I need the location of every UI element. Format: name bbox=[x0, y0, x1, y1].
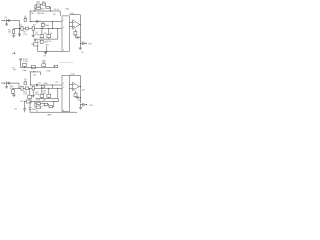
wire node H down bbox=[18, 83, 20, 88]
svg-text:4k7: 4k7 bbox=[82, 90, 85, 92]
svg-text:C9: C9 bbox=[38, 83, 40, 85]
node Q junction bbox=[52, 21, 53, 22]
resistor R8b 220k bbox=[41, 82, 58, 88]
ground below jack J1 bbox=[5, 22, 8, 25]
jumper marks left bbox=[12, 67, 15, 70]
ground on bias rail bbox=[44, 51, 48, 57]
ground below R13 bbox=[13, 95, 16, 97]
input jack J1 bbox=[5, 17, 8, 23]
node U junction bbox=[79, 103, 82, 106]
ground below output bottom bbox=[79, 105, 82, 110]
wire supply rail middle faint bbox=[59, 62, 74, 64]
capacitor Cin bottom bars bbox=[8, 82, 11, 85]
wire node J down bbox=[48, 88, 50, 94]
svg-text:2.2k: 2.2k bbox=[23, 94, 27, 96]
node M junction bbox=[33, 100, 36, 103]
label C12 value bbox=[35, 92, 39, 96]
wire lower rail bottom bbox=[36, 97, 58, 99]
ground below C3 bbox=[32, 36, 35, 38]
node J junction bbox=[48, 88, 49, 89]
capacitor C3 to ground bbox=[32, 26, 34, 35]
wire output vertical b bbox=[80, 76, 82, 104]
resistor R14 series bbox=[25, 87, 28, 90]
svg-text:22k: 22k bbox=[42, 62, 45, 64]
svg-text:470p: 470p bbox=[35, 94, 39, 96]
wire to IC pin bbox=[30, 21, 62, 23]
node K junction bbox=[57, 88, 58, 89]
input jack J2 bbox=[6, 81, 8, 85]
capacitor C14 bbox=[76, 96, 81, 98]
wire non-inverting input b bbox=[69, 88, 72, 90]
label small left bbox=[12, 52, 15, 54]
node L junction bbox=[79, 96, 82, 99]
wire bias rail top bbox=[38, 50, 62, 52]
capacitor C13 bbox=[40, 94, 44, 98]
label R14 value bbox=[23, 91, 27, 95]
wire Q down to bus bbox=[51, 22, 53, 29]
ground below jack J2 bbox=[5, 85, 8, 88]
wire middle link bottom bbox=[41, 104, 45, 107]
node Q2 junction bbox=[52, 28, 53, 29]
wire bottom rail bbox=[30, 111, 77, 113]
node N junction bbox=[52, 100, 55, 103]
svg-text:C15: C15 bbox=[77, 100, 80, 102]
wire node I down bbox=[41, 88, 43, 94]
svg-text:C8: C8 bbox=[74, 35, 76, 37]
svg-text:4: 4 bbox=[63, 50, 64, 52]
ground below R1 bbox=[12, 35, 15, 37]
wire feedback bus bottom bbox=[25, 100, 59, 102]
resistor R17 feedback bbox=[36, 103, 40, 105]
wire below op-amp bbox=[74, 29, 76, 31]
svg-text:GND: GND bbox=[47, 115, 52, 117]
svg-text:470p: 470p bbox=[35, 34, 39, 36]
resistor R15 bbox=[47, 94, 51, 98]
svg-text:10u: 10u bbox=[44, 42, 47, 44]
wire riser to bus bbox=[57, 29, 59, 40]
capacitor C24 to rail bbox=[29, 101, 36, 112]
ground below output top bbox=[79, 48, 85, 54]
wire feedback right drop bottom bbox=[58, 98, 60, 101]
capacitor C15 electrolytic bbox=[81, 101, 84, 106]
node A junction bbox=[19, 28, 20, 29]
op-amp IC1a bbox=[73, 20, 80, 29]
capacitor C1 bbox=[24, 16, 27, 21]
resistor R1 load bbox=[8, 29, 15, 36]
capacitor C18 feedback bbox=[48, 104, 53, 108]
label mid values bbox=[22, 65, 57, 73]
wire middle link bbox=[41, 5, 43, 9]
resistor R8 bbox=[74, 31, 77, 37]
capacitor C2 series bbox=[20, 25, 24, 31]
wire S down to bus bbox=[51, 85, 53, 88]
resistor R4 feedback bbox=[42, 1, 45, 5]
wire node B down bbox=[41, 29, 43, 35]
svg-text:10k: 10k bbox=[33, 71, 36, 73]
resistor R9 bbox=[22, 59, 28, 67]
svg-text:6: 6 bbox=[63, 83, 64, 85]
node S junction bbox=[52, 85, 53, 86]
wire below op-amp b bbox=[75, 91, 77, 93]
svg-text:1k: 1k bbox=[50, 33, 52, 35]
resistor R3 feedback bbox=[36, 2, 41, 7]
svg-text:680 10u: 680 10u bbox=[37, 13, 44, 15]
node E2 junction bbox=[29, 10, 32, 13]
svg-text:47n: 47n bbox=[33, 25, 36, 27]
wire to IC pin bottom bbox=[30, 84, 62, 86]
svg-text:.047: .047 bbox=[43, 93, 47, 95]
svg-text:S1: S1 bbox=[12, 67, 14, 69]
node F junction bbox=[49, 10, 52, 13]
node T junction bbox=[79, 42, 82, 45]
wire main bus top channel bbox=[14, 28, 62, 30]
resistor R10 bbox=[31, 66, 35, 69]
svg-text:2: 2 bbox=[63, 20, 64, 22]
input jack J2 arrow bbox=[1, 82, 5, 84]
input jack J1 arrow bbox=[1, 20, 5, 22]
node W junction bbox=[23, 100, 26, 103]
capacitor C10 bias bbox=[31, 42, 37, 46]
resistor R16 bbox=[74, 93, 77, 97]
op-amp IC1b bbox=[73, 82, 80, 90]
wire left manifold bbox=[35, 5, 37, 11]
svg-text:3: 3 bbox=[63, 27, 64, 29]
node I junction bbox=[41, 88, 42, 89]
capacitor C22 bbox=[28, 95, 32, 101]
node output junction bbox=[80, 24, 81, 25]
node X junction bbox=[29, 100, 32, 103]
node R junction bbox=[30, 84, 31, 85]
label C3 value bbox=[35, 32, 39, 36]
wire jack to node H bbox=[7, 82, 19, 84]
wire riser to bus bottom bbox=[57, 88, 59, 98]
capacitor C16 bbox=[20, 100, 31, 103]
svg-text:22k: 22k bbox=[33, 74, 36, 76]
resistor R2 series bbox=[25, 27, 28, 30]
svg-text:47n: 47n bbox=[24, 18, 27, 20]
resistor R5 bbox=[47, 35, 51, 40]
node D junction bbox=[57, 28, 58, 29]
output arrow bottom bbox=[84, 104, 87, 106]
svg-text:2.2k: 2.2k bbox=[23, 34, 27, 36]
wire down to ground top bbox=[79, 43, 81, 48]
wire riser from mid bbox=[29, 72, 31, 85]
IC box U1 outline bbox=[62, 16, 69, 52]
node B junction bbox=[41, 28, 42, 29]
wire feedback bus bbox=[30, 10, 60, 12]
svg-text:47k: 47k bbox=[8, 32, 11, 34]
wire output stub bbox=[79, 24, 82, 26]
capacitor C19 top bars bbox=[19, 59, 22, 68]
resistor R8a 220k bbox=[41, 22, 49, 29]
node G junction bbox=[79, 36, 82, 39]
svg-text:5: 5 bbox=[63, 87, 64, 89]
svg-text:C2: C2 bbox=[20, 25, 22, 27]
svg-text:R7: R7 bbox=[53, 14, 55, 16]
svg-text:100u: 100u bbox=[46, 70, 50, 72]
capacitor C5 feedback bbox=[36, 7, 41, 9]
wire C22 riser below bus bbox=[29, 88, 31, 95]
svg-text:4k7: 4k7 bbox=[42, 1, 45, 3]
svg-text:R5 1k: R5 1k bbox=[46, 41, 51, 43]
pin numbers U1b bbox=[63, 83, 64, 112]
wire feedback top b bbox=[69, 75, 80, 77]
wire lower rail bbox=[36, 38, 58, 40]
capacitor C9 electrolytic bbox=[80, 40, 84, 45]
wire feedback left drop bbox=[29, 11, 31, 22]
IC box U1b outline bbox=[62, 75, 69, 111]
wire inverting input bbox=[69, 21, 72, 23]
node H junction bbox=[19, 88, 20, 89]
wire main bus bottom channel bbox=[13, 87, 62, 89]
wire bias riser bbox=[37, 46, 39, 51]
svg-text:C16: C16 bbox=[20, 101, 23, 103]
wire mid lower bbox=[29, 72, 40, 76]
resistor R13 load bbox=[12, 88, 15, 95]
capacitor C11 series bbox=[21, 86, 23, 90]
capacitor C21 series bars bbox=[36, 83, 40, 87]
node E junction bbox=[33, 10, 36, 13]
svg-text:8: 8 bbox=[63, 110, 64, 112]
label R13 bbox=[10, 86, 13, 90]
capacitor C25 bias bbox=[40, 40, 49, 52]
wire left manifold bottom bbox=[35, 101, 37, 107]
wire inverting input b bbox=[69, 83, 72, 85]
wire output stub b bbox=[79, 86, 80, 88]
capacitor Cin top bars bbox=[8, 19, 11, 22]
svg-text:C6 1n: C6 1n bbox=[54, 9, 59, 11]
capacitor C23 to rail bbox=[23, 101, 26, 112]
resistor R18 feedback bbox=[45, 103, 48, 105]
wire right manifold bbox=[50, 7, 51, 11]
wire feedback right drop bbox=[59, 11, 61, 16]
svg-text:1n: 1n bbox=[36, 111, 38, 113]
svg-text:10n: 10n bbox=[42, 8, 45, 10]
svg-text:10n: 10n bbox=[42, 105, 45, 107]
capacitor C8 bbox=[74, 35, 80, 39]
svg-text:R6: R6 bbox=[31, 13, 33, 15]
capacitor C17 feedback bbox=[36, 106, 41, 108]
wire node A down to bus bbox=[19, 21, 21, 29]
svg-text:150k: 150k bbox=[36, 100, 40, 102]
wire non-inverting input bbox=[69, 26, 72, 28]
label R2 value bbox=[23, 32, 27, 36]
svg-text:R7: R7 bbox=[56, 82, 58, 84]
capacitor C20 bbox=[24, 79, 27, 84]
output arrow top bbox=[84, 43, 87, 45]
resistor R11 bbox=[42, 60, 46, 66]
node V junction bbox=[29, 88, 30, 89]
capacitor C2b series bars bbox=[33, 20, 40, 26]
wire jack to node A bbox=[7, 20, 19, 22]
wire node C down bbox=[48, 29, 50, 35]
node P junction bbox=[30, 21, 31, 22]
svg-text:100n: 100n bbox=[22, 70, 26, 72]
capacitor C4 bbox=[40, 35, 44, 40]
capacitor C12 to ground bbox=[32, 86, 34, 95]
wire mid bus bbox=[21, 67, 58, 69]
svg-text:C 22u: C 22u bbox=[23, 61, 28, 63]
svg-text:IC1b: IC1b bbox=[71, 74, 75, 76]
svg-text:220k: 220k bbox=[45, 25, 49, 27]
wire feedback top bbox=[69, 14, 80, 16]
capacitor C2a below node A bbox=[18, 29, 20, 37]
svg-text:220k: 220k bbox=[44, 83, 48, 85]
ground on lower rail bbox=[34, 39, 37, 42]
wire output vertical bbox=[79, 15, 81, 44]
svg-text:47n: 47n bbox=[24, 81, 27, 83]
svg-text:4k7: 4k7 bbox=[43, 100, 46, 102]
wire right manifold bottom bbox=[53, 101, 59, 106]
ground below C12 bbox=[32, 96, 35, 98]
svg-text:C2: C2 bbox=[38, 21, 40, 23]
node C junction bbox=[48, 28, 49, 29]
pin numbers U1a bbox=[63, 20, 64, 52]
label small above boxes bbox=[44, 33, 52, 35]
svg-text:150k: 150k bbox=[36, 2, 40, 4]
node output junction b bbox=[80, 86, 81, 87]
svg-text:47n: 47n bbox=[44, 33, 47, 35]
capacitor C6 feedback bbox=[46, 4, 50, 8]
label C13 value bbox=[43, 91, 47, 95]
